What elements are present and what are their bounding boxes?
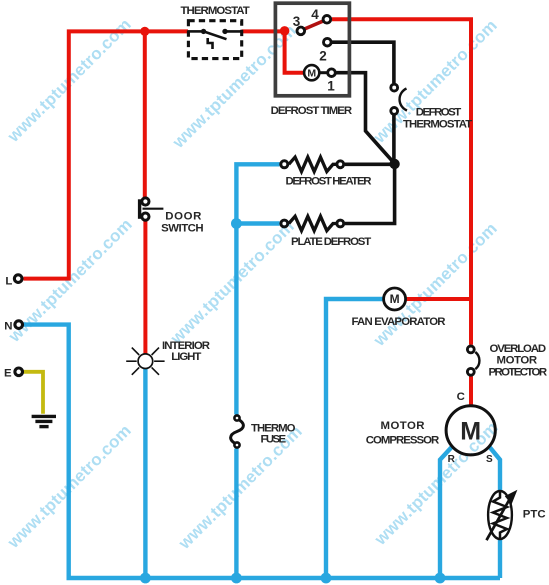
svg-text:E: E [4,368,12,380]
svg-text:LIGHT: LIGHT [171,351,201,363]
svg-text:MOTOR: MOTOR [381,420,425,432]
svg-text:DEFROST: DEFROST [416,107,462,119]
svg-text:www.tptumetro.com: www.tptumetro.com [166,217,298,349]
svg-text:THERMO: THERMO [251,422,296,434]
svg-text:3: 3 [293,14,301,29]
svg-text:PROTECTOR: PROTECTOR [489,366,548,378]
svg-text:R: R [448,454,456,465]
svg-text:PTC: PTC [523,509,546,521]
svg-text:L: L [5,276,12,288]
svg-text:4: 4 [311,7,319,22]
svg-text:PLATE DEFROST: PLATE DEFROST [291,236,371,248]
svg-text:DEFROST HEATER: DEFROST HEATER [286,176,372,188]
svg-text:MOTOR: MOTOR [497,354,538,366]
svg-text:1: 1 [327,78,335,93]
svg-text:S: S [486,454,493,465]
svg-text:DOOR: DOOR [165,210,201,222]
svg-text:THERMOSTAT: THERMOSTAT [403,118,472,130]
svg-text:www.tptumetro.com: www.tptumetro.com [168,21,300,153]
svg-text:SWITCH: SWITCH [161,223,204,235]
svg-text:M: M [460,417,481,445]
svg-text:OVERLOAD: OVERLOAD [490,343,547,355]
svg-text:FAN EVAPORATOR: FAN EVAPORATOR [352,316,446,328]
svg-text:FUSE: FUSE [261,434,287,446]
svg-text:M: M [307,68,316,80]
svg-text:M: M [390,292,400,306]
svg-text:THERMOSTAT: THERMOSTAT [181,5,250,17]
svg-text:INTERIOR: INTERIOR [162,340,210,352]
svg-text:COMPRESSOR: COMPRESSOR [366,434,440,446]
svg-text:C: C [457,391,465,403]
svg-text:N: N [4,320,12,332]
svg-text:2: 2 [319,49,327,64]
svg-text:DEFROST TIMER: DEFROST TIMER [271,105,353,117]
svg-text:www.tptumetro.com: www.tptumetro.com [369,219,501,351]
